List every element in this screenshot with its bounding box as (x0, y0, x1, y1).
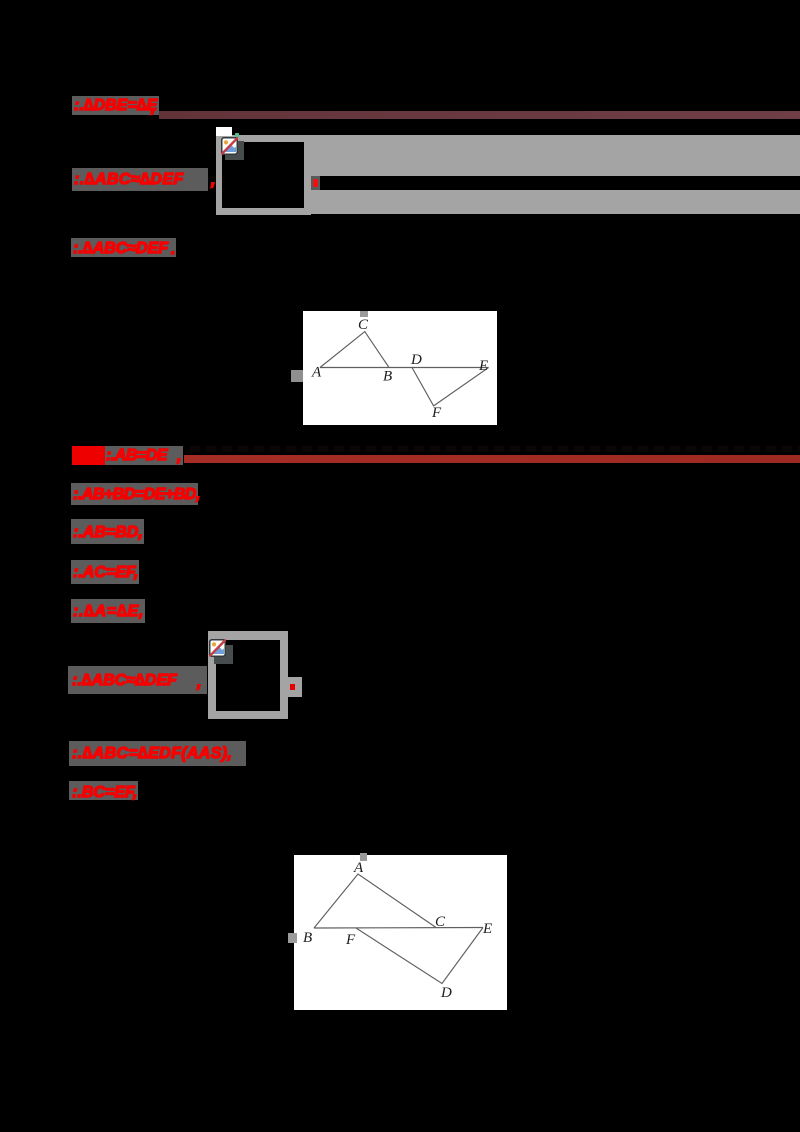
svg-text:C: C (358, 317, 369, 333)
svg-text:A: A (311, 365, 322, 381)
svg-text:F: F (345, 932, 356, 948)
svg-text:E: E (478, 358, 488, 374)
svg-text:D: D (410, 352, 422, 368)
svg-text:B: B (383, 369, 392, 385)
svg-text:A: A (353, 860, 364, 876)
svg-text:C: C (435, 914, 446, 930)
svg-text:E: E (482, 921, 492, 937)
svg-text:F: F (431, 405, 442, 421)
svg-text:B: B (303, 930, 312, 946)
svg-text:D: D (440, 985, 452, 1001)
